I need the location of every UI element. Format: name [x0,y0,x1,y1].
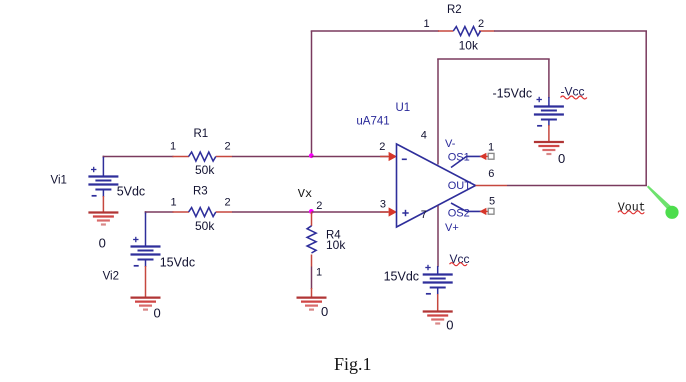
svg-text:2: 2 [225,196,231,208]
svg-text:-15Vdc: -15Vdc [493,87,533,101]
svg-text:0: 0 [558,151,565,166]
wire OUT to right vertical [507,185,647,187]
op-amp U1 triangle [397,144,476,227]
pin V- stub wire [437,59,439,165]
svg-text:Vi1: Vi1 [51,174,67,186]
svg-text:0: 0 [321,304,328,319]
OS2 pin line [451,203,481,211]
wire R4 to ground [311,267,313,290]
svg-text:5Vdc: 5Vdc [117,184,146,198]
svg-text:U1: U1 [396,102,411,114]
svg-text:Vi2: Vi2 [103,271,119,283]
voltage source 15Vdc (Vcc) battery [423,273,453,275]
OS1 arrow [485,155,489,157]
voltage source Vi2 15Vdc battery [131,245,161,247]
OS1 pin line [451,156,481,167]
resistor R4 [311,212,313,226]
op-amp minus sign [402,158,407,160]
wire V- rail horizontal [437,58,550,60]
pin 2 red lead and arrow into op-amp [380,156,390,158]
ground 0 under Vi1 [88,211,118,213]
wire R3 to node vx [232,211,312,213]
svg-text:1: 1 [424,18,430,30]
wire feedback right vertical [645,31,647,186]
wire feedback top horizontal left of R2 [311,30,439,32]
OS2 arrow [485,210,489,212]
ground 0 under Vi2 [131,297,161,299]
svg-text:R2: R2 [447,4,462,16]
ground 0 under -15Vdc [534,141,564,143]
svg-text:R3: R3 [193,185,208,197]
pin 3 red lead and arrow into op-amp [380,211,390,213]
svg-text:uA741: uA741 [356,116,389,128]
svg-text:5: 5 [489,196,495,208]
voltage probe at Vout [647,186,671,210]
svg-text:10k: 10k [326,238,346,252]
svg-text:OS2: OS2 [448,208,470,220]
svg-text:3: 3 [380,199,386,211]
wire R1 to junction [232,156,312,158]
OS2 unconnected square [488,208,494,214]
wire Vi1 to R1 [103,156,174,158]
svg-text:OUT: OUT [448,180,472,192]
svg-text:6: 6 [488,168,494,180]
resistor R2 [438,30,453,32]
wire junction to op-amp pin 2 [312,156,389,158]
ground 0 under 15Vdc [423,310,453,312]
svg-text:50k: 50k [195,219,215,233]
pin V+ stub wire [437,206,439,268]
voltage source -15Vdc (-Vcc) battery [534,105,564,107]
wire feedback top-left vertical [311,31,313,157]
svg-text:2: 2 [225,141,231,153]
svg-text:15Vdc: 15Vdc [384,270,419,284]
svg-text:1: 1 [170,141,176,153]
wire node vx to op-amp pin 3 [312,211,389,213]
svg-text:1: 1 [488,141,494,153]
wire Vi2 to R3 [145,211,174,213]
svg-text:R1: R1 [194,128,209,140]
wire -15Vdc battery to ground [548,120,550,127]
OS1 unconnected square [488,153,494,159]
svg-text:0: 0 [154,306,161,321]
resistor R1 [173,156,190,158]
svg-text:Vx: Vx [298,187,312,201]
svg-text:2: 2 [379,141,385,153]
svg-text:V+: V+ [445,222,459,234]
wire Vi1 battery to ground [102,190,104,198]
svg-text:0: 0 [446,317,453,332]
svg-text:1: 1 [171,196,177,208]
svg-text:0: 0 [99,236,106,251]
svg-text:V-: V- [445,138,456,150]
wire 15Vdc battery to ground [437,288,439,296]
wire Vi1 top corner [102,156,104,158]
resistor R3 [173,211,190,213]
svg-text:1: 1 [316,267,322,279]
wire feedback top horizontal right of R2 [494,30,647,32]
svg-text:Fig.1: Fig.1 [334,354,372,374]
voltage source Vi1 5Vdc battery [88,175,118,177]
wire down to -15Vdc battery [548,59,550,98]
svg-text:7: 7 [421,209,427,221]
junction node dot (inverting input net) [309,153,314,158]
svg-text:2: 2 [316,200,322,212]
svg-text:15Vdc: 15Vdc [160,255,195,269]
svg-text:2: 2 [478,18,484,30]
wire Vi2 battery to ground [145,260,147,268]
OUT pin lead [476,185,508,187]
ground 0 under R4 [297,297,327,299]
node vx junction dot [309,209,314,214]
wire Vi2 top corner [145,211,147,213]
op-amp plus sign [402,212,408,214]
svg-text:4: 4 [421,129,427,141]
svg-text:10k: 10k [459,38,479,52]
svg-text:50k: 50k [195,163,215,177]
